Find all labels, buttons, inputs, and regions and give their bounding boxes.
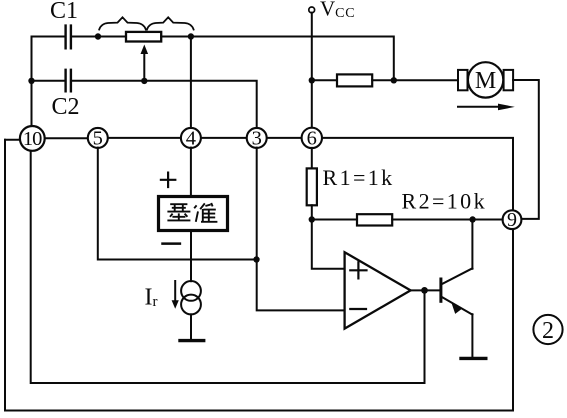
node dot Vcc at resistor row xyxy=(309,77,315,83)
svg-text:Ir: Ir xyxy=(145,284,158,310)
wire C2 left lead xyxy=(32,80,65,82)
svg-text:R1=1k: R1=1k xyxy=(323,165,395,190)
wire top lead from left vertical to C1 xyxy=(32,36,65,38)
arrow Ir xyxy=(174,281,176,303)
svg-text:2: 2 xyxy=(542,318,554,344)
pin 10 xyxy=(20,126,45,151)
wire C2 right across to pin3 top xyxy=(72,81,257,129)
brace over potentiometer xyxy=(99,17,193,29)
node dot R2/collector xyxy=(469,216,475,222)
node dot op-amp output xyxy=(421,287,428,294)
capacitor C2 xyxy=(66,70,71,92)
wire R2 left lead xyxy=(312,219,357,221)
wire left vertical C1-C2 down to pin10 xyxy=(31,37,33,127)
wire inner loop: pin10 down, bottom, up to op-amp output xyxy=(31,150,425,383)
svg-text:6: 6 xyxy=(307,128,317,150)
transistor Q1 xyxy=(441,268,473,314)
wire pin4 to pin3 xyxy=(201,137,247,139)
resistor R2 xyxy=(357,214,392,225)
op-amp + input sign xyxy=(350,262,366,278)
svg-text:9: 9 xyxy=(507,209,517,231)
op-amp - input sign xyxy=(350,308,366,310)
wire Vcc down to pin6 xyxy=(311,13,313,128)
current source Ir (two circles) xyxy=(181,281,201,301)
figure number circled 2 xyxy=(533,315,562,344)
wire pin3 down through junction to op-amp - input xyxy=(257,148,345,311)
svg-text:C2: C2 xyxy=(52,94,80,120)
svg-text:M: M xyxy=(475,68,496,94)
wire emitter down to ground xyxy=(471,314,473,357)
ground (transistor) xyxy=(461,357,486,360)
wire pot right down to pin4 xyxy=(190,37,192,128)
svg-text:R2=10k: R2=10k xyxy=(402,189,487,214)
wire pin3 to pin6 xyxy=(267,137,302,139)
wire pin5 down and across xyxy=(98,148,256,260)
ground (current source) xyxy=(180,339,204,342)
svg-text:3: 3 xyxy=(252,128,262,150)
terminal Vcc xyxy=(309,7,315,13)
wire pin row: left stub to pin10 xyxy=(5,139,20,141)
resistor R1 xyxy=(307,168,317,205)
wire resistor to motor xyxy=(372,79,458,81)
wire current source down to ground xyxy=(190,314,192,339)
pin 6 xyxy=(302,128,322,150)
op-amp U1 xyxy=(345,252,411,328)
node dot wiper to C2 wire xyxy=(141,78,147,84)
svg-text:VCC: VCC xyxy=(320,0,355,21)
wiper arrow of potentiometer xyxy=(143,52,145,81)
node dot at pot right (pin4 top) xyxy=(188,33,194,39)
wire motor right down to pin9 xyxy=(513,80,539,219)
wire collector up to R2 row xyxy=(471,220,473,269)
wire pin5 to pin4 xyxy=(108,137,181,139)
node dot at pot left (pin5 top) xyxy=(95,33,101,39)
wire R1 bottom to R2 row junction xyxy=(311,205,313,219)
node dot R1 bottom xyxy=(309,216,315,222)
pin 3 xyxy=(247,128,267,150)
text jizhun strokes xyxy=(167,203,217,222)
wire R2 right to pin9 xyxy=(392,219,502,221)
wire junction down to op-amp + input xyxy=(312,220,344,269)
wire op-amp output to transistor base xyxy=(411,289,440,291)
potentiometer body xyxy=(126,32,161,42)
pin 9 xyxy=(503,209,522,231)
wire pot right to corner, down to resistor row xyxy=(161,37,394,81)
wire outer loop: left vertical and bottom xyxy=(5,140,513,411)
rotation direction arrow xyxy=(458,106,501,108)
wire resistor row left lead xyxy=(312,79,337,81)
wire C1 right to pot left xyxy=(72,36,126,38)
svg-text:10: 10 xyxy=(23,128,42,150)
svg-text:5: 5 xyxy=(93,128,103,150)
motor M xyxy=(458,62,513,97)
label - below reference xyxy=(163,242,180,245)
wire reference box down to current source xyxy=(190,231,192,282)
reference box (jizhun) xyxy=(159,197,228,231)
wire pin6 to right loop corner, down to pin9 xyxy=(322,138,513,211)
wire pin10 to pin5 xyxy=(45,137,88,139)
node dot C2 left xyxy=(28,78,34,84)
resistor (top, unlabeled) xyxy=(337,74,372,86)
node dot resistor right xyxy=(391,77,397,83)
pin 4 xyxy=(181,128,201,150)
wire pin6 down to R1 xyxy=(311,148,313,169)
label + above reference xyxy=(161,173,175,187)
pin 5 xyxy=(88,128,108,150)
wire pin4 down to reference box xyxy=(190,148,192,196)
svg-text:4: 4 xyxy=(186,128,196,150)
svg-text:C1: C1 xyxy=(50,0,78,24)
capacitor C1 xyxy=(66,26,71,49)
node dot junction pin3 xyxy=(253,256,259,262)
